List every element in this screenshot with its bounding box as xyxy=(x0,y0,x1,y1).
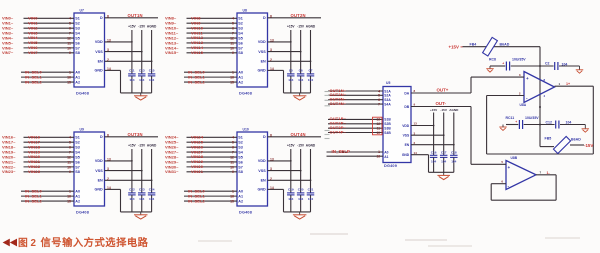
capacitor RC11 10U/35V xyxy=(506,116,540,129)
svg-text:2: 2 xyxy=(270,58,272,62)
power rail +15V xyxy=(128,143,136,193)
power rail AGND xyxy=(306,24,316,74)
svg-text:EN: EN xyxy=(405,143,410,147)
svg-text:1: 1 xyxy=(559,82,561,86)
svg-text:A2: A2 xyxy=(75,80,80,84)
power rail AGND xyxy=(449,108,459,155)
svg-text:1+: 1+ xyxy=(566,82,570,86)
wire top bypass line xyxy=(490,65,580,67)
svg-text:10: 10 xyxy=(67,46,71,50)
svg-text:13: 13 xyxy=(270,38,274,42)
svg-text:EN: EN xyxy=(261,60,266,64)
svg-text:11: 11 xyxy=(67,160,71,164)
svg-text:+15V: +15V xyxy=(128,143,136,147)
svg-text:S6: S6 xyxy=(238,160,243,164)
capacitor C11 xyxy=(128,68,136,93)
wire VDD to +15V rail xyxy=(105,160,133,162)
wire VIN19 xyxy=(24,151,75,153)
svg-text:S3: S3 xyxy=(238,27,243,31)
svg-text:DG409: DG409 xyxy=(384,164,397,168)
svg-text:16: 16 xyxy=(230,76,234,80)
svg-text:10: 10 xyxy=(230,46,234,50)
svg-text:AGND: AGND xyxy=(306,24,316,28)
wire GND pin to ground xyxy=(105,70,121,93)
wire VDD to +15V rail xyxy=(268,160,292,162)
svg-text:15: 15 xyxy=(67,199,71,203)
svg-text:A0: A0 xyxy=(238,190,243,194)
wire IN_SEL1 xyxy=(184,195,237,197)
wire IN_SEL1 xyxy=(184,76,237,78)
svg-text:-15V: -15V xyxy=(297,24,305,28)
svg-text:5: 5 xyxy=(69,141,71,145)
svg-text:DA: DA xyxy=(404,91,409,95)
wire VIN12 xyxy=(187,37,238,39)
wire VIN9 xyxy=(187,22,238,24)
svg-text:104: 104 xyxy=(139,78,144,82)
svg-text:1: 1 xyxy=(69,71,71,75)
power rail +15V xyxy=(287,24,295,74)
capacitor C12 104 xyxy=(546,121,572,129)
IC U5 DG409 body xyxy=(383,81,411,168)
svg-text:C16: C16 xyxy=(431,151,437,155)
svg-text:5: 5 xyxy=(501,160,503,164)
svg-text:16: 16 xyxy=(230,195,234,199)
svg-text:C21: C21 xyxy=(308,187,314,191)
wire VIN20 xyxy=(24,156,75,158)
svg-text:2: 2 xyxy=(519,91,521,95)
svg-text:A0: A0 xyxy=(75,71,80,75)
analog ground AGND xyxy=(582,125,590,133)
ferrite bead FB4 xyxy=(470,37,510,56)
svg-text:9: 9 xyxy=(69,170,71,174)
svg-text:4: 4 xyxy=(232,136,234,140)
wire OUT2N~ xyxy=(328,94,383,96)
svg-text:104: 104 xyxy=(441,160,446,164)
svg-text:A1: A1 xyxy=(238,195,243,199)
wire U8A feedback right edge xyxy=(592,86,594,154)
svg-text:A1: A1 xyxy=(75,76,80,80)
wire VIN0 xyxy=(24,17,75,19)
svg-text:11: 11 xyxy=(230,160,234,164)
op-amp U8B xyxy=(506,156,536,190)
wire VIN1 xyxy=(24,22,75,24)
svg-text:S8: S8 xyxy=(75,51,80,55)
svg-text:+: + xyxy=(515,120,517,124)
cap group bottom wire xyxy=(284,92,311,94)
svg-text:EN: EN xyxy=(98,60,103,64)
wire VDD to +15V rail xyxy=(411,125,435,127)
wire IN_SEL2 xyxy=(21,200,74,202)
svg-text:FB4: FB4 xyxy=(470,42,477,46)
svg-text:8: 8 xyxy=(544,78,546,82)
svg-text:U8A: U8A xyxy=(520,103,527,107)
svg-text:IN_SEL2: IN_SEL2 xyxy=(188,198,206,203)
svg-text:A2: A2 xyxy=(238,199,243,203)
power rail -15V xyxy=(440,108,447,155)
svg-text:13: 13 xyxy=(107,38,111,42)
wire VIN17 xyxy=(24,141,75,143)
svg-text:VDD: VDD xyxy=(258,159,266,163)
wire DA output OUT+ xyxy=(411,92,471,94)
svg-text:S8: S8 xyxy=(75,170,80,174)
net label +15V xyxy=(449,44,463,49)
ground symbol xyxy=(134,93,148,100)
svg-text:10: 10 xyxy=(376,131,380,135)
wire GND pin to ground xyxy=(105,189,121,212)
ground symbol xyxy=(293,212,307,219)
svg-text:U5: U5 xyxy=(386,81,390,85)
wire U8B feedback bottom edge xyxy=(491,199,556,201)
svg-text:S4A: S4A xyxy=(384,102,391,106)
svg-text:S5: S5 xyxy=(75,36,80,40)
wire VIN26 xyxy=(187,146,238,148)
svg-text:信号输入方式选择电路: 信号输入方式选择电路 xyxy=(41,236,149,249)
faint mark xyxy=(325,92,331,106)
capacitor RC8 10U/35V xyxy=(489,57,526,70)
analog ground AGND xyxy=(499,127,507,130)
svg-text:14: 14 xyxy=(270,67,274,71)
power rail +15V xyxy=(430,108,438,155)
svg-text:B6AD: B6AD xyxy=(500,42,510,46)
ground symbol xyxy=(437,172,450,179)
svg-text:S4B: S4B xyxy=(384,131,391,135)
svg-text:D: D xyxy=(263,135,266,139)
power rail -15V xyxy=(138,143,146,193)
wire VIN18 xyxy=(24,146,75,148)
svg-text:GND: GND xyxy=(257,69,266,73)
wire U8A output xyxy=(555,85,594,87)
svg-text:IN_SELP: IN_SELP xyxy=(332,149,351,154)
wire GND pin to ground xyxy=(411,155,429,173)
svg-text:AGND: AGND xyxy=(306,143,316,147)
svg-text:8: 8 xyxy=(107,133,109,137)
ground symbol xyxy=(134,212,148,219)
svg-text:13: 13 xyxy=(107,157,111,161)
wire V+ supply vertical xyxy=(539,47,541,126)
ground symbol xyxy=(293,93,307,100)
svg-text:S2: S2 xyxy=(238,141,243,145)
svg-text:+15V: +15V xyxy=(287,24,295,28)
svg-text:C2: C2 xyxy=(545,61,550,65)
svg-text:S5: S5 xyxy=(238,36,243,40)
power rail -15V xyxy=(297,24,305,74)
wire IN_SEL2 xyxy=(21,81,74,83)
svg-text:VIN7~: VIN7~ xyxy=(2,50,14,55)
wire IN_SEL0 xyxy=(184,190,237,192)
svg-text:6: 6 xyxy=(501,180,503,184)
wire EN to AGND rail xyxy=(411,144,455,146)
svg-text:C18: C18 xyxy=(451,151,457,155)
svg-text:OUT2N: OUT2N xyxy=(291,13,306,18)
power rail AGND xyxy=(147,24,157,74)
svg-text:3: 3 xyxy=(107,167,109,171)
svg-text:5: 5 xyxy=(232,22,234,26)
wire bead FB5 to -15V xyxy=(570,144,584,146)
svg-text:A1: A1 xyxy=(75,195,80,199)
svg-text:C20: C20 xyxy=(298,187,304,191)
analog ground AGND xyxy=(576,66,584,73)
IC U7 DG408 body xyxy=(74,9,105,96)
svg-text:OUT4N~: OUT4N~ xyxy=(330,101,347,106)
svg-text:10U/35V: 10U/35V xyxy=(525,116,539,120)
wire VIN27 xyxy=(187,151,238,153)
svg-text:14: 14 xyxy=(107,186,111,190)
wire IN_SEL0 xyxy=(21,190,74,192)
svg-text:10U/35V: 10U/35V xyxy=(512,57,526,61)
wire VIN11 xyxy=(187,32,238,34)
wire D output OUT4N xyxy=(268,136,322,138)
svg-text:A2: A2 xyxy=(75,199,80,203)
wire OUT2P~ xyxy=(328,123,383,125)
wire U8B feedback left edge xyxy=(490,184,492,201)
svg-text:4: 4 xyxy=(69,17,71,21)
wire VIN13 xyxy=(187,42,238,44)
op-amp U8A xyxy=(520,72,555,107)
svg-text:DG408: DG408 xyxy=(239,211,252,215)
power rail +15V xyxy=(287,143,295,193)
capacitor C24 xyxy=(148,187,156,212)
wire D output OUT1N xyxy=(105,17,159,19)
svg-text:104: 104 xyxy=(451,160,456,164)
svg-text:U10: U10 xyxy=(243,128,249,132)
svg-text:3: 3 xyxy=(270,48,272,52)
svg-text:S6: S6 xyxy=(238,41,243,45)
IC U8 DG408 body xyxy=(237,9,268,96)
svg-text:1-: 1- xyxy=(547,171,551,175)
cap group bottom wire xyxy=(284,211,311,213)
svg-text:+15V: +15V xyxy=(449,44,459,49)
svg-text:S7: S7 xyxy=(238,46,243,50)
capacitor C20 xyxy=(297,187,305,212)
svg-text:VDD: VDD xyxy=(95,40,103,44)
svg-text:3: 3 xyxy=(270,167,272,171)
svg-text:12: 12 xyxy=(67,155,71,159)
svg-text:104: 104 xyxy=(566,121,572,125)
svg-text:-15V: -15V xyxy=(440,108,447,112)
svg-text:C15: C15 xyxy=(149,68,155,72)
svg-text:GND: GND xyxy=(257,188,266,192)
svg-text:14: 14 xyxy=(270,186,274,190)
svg-text:16: 16 xyxy=(67,195,71,199)
svg-text:104: 104 xyxy=(308,197,313,201)
svg-text:104: 104 xyxy=(149,197,154,201)
capacitor C5 xyxy=(287,68,295,93)
svg-text:D: D xyxy=(100,16,103,20)
svg-text:S6: S6 xyxy=(75,160,80,164)
wire VIN29 xyxy=(187,161,238,163)
svg-text:A0: A0 xyxy=(75,190,80,194)
wire OUT3P~ xyxy=(328,127,383,129)
svg-text:VIN23~: VIN23~ xyxy=(2,169,16,174)
svg-text:7: 7 xyxy=(540,170,542,174)
ferrite bead FB5 xyxy=(545,136,582,153)
wire OUT1N~ xyxy=(328,90,383,92)
svg-text:VIN23: VIN23 xyxy=(28,169,41,174)
svg-text:OUT1N: OUT1N xyxy=(128,13,143,18)
svg-text:8: 8 xyxy=(270,133,272,137)
svg-text:EN: EN xyxy=(261,179,266,183)
svg-text:8: 8 xyxy=(107,14,109,18)
svg-text:104: 104 xyxy=(298,78,303,82)
svg-text:S2: S2 xyxy=(75,22,80,26)
wire OUT4P~ xyxy=(328,132,383,134)
svg-text:104: 104 xyxy=(288,78,293,82)
svg-text:OUT+: OUT+ xyxy=(437,88,449,93)
wire VIN2 xyxy=(24,27,75,29)
svg-text:FB5: FB5 xyxy=(545,136,552,140)
wire U8A non-inverting input xyxy=(471,76,524,78)
svg-text:6: 6 xyxy=(232,27,234,31)
svg-text:C7: C7 xyxy=(309,68,313,72)
wire D output OUT3N xyxy=(105,136,159,138)
wire VIN10 xyxy=(187,27,238,29)
svg-text:104: 104 xyxy=(562,62,568,66)
wire IN_SEL1 xyxy=(21,195,74,197)
svg-text:RC8: RC8 xyxy=(489,57,496,61)
svg-text:-15V: -15V xyxy=(584,143,593,148)
svg-text:VSS: VSS xyxy=(258,169,266,173)
capacitor C21 xyxy=(307,187,315,212)
IC U10 DG408 body xyxy=(237,128,268,215)
wire +15V to ferrite bead FB4 xyxy=(463,46,541,48)
wire U8B output xyxy=(536,174,556,176)
svg-text:VDD: VDD xyxy=(402,124,410,128)
svg-text:14: 14 xyxy=(414,151,418,155)
svg-text:4: 4 xyxy=(544,94,546,98)
wire VIN5 xyxy=(24,42,75,44)
wire VDD to +15V rail xyxy=(105,41,133,43)
svg-text:+15V: +15V xyxy=(128,24,136,28)
wire A1 xyxy=(327,155,384,157)
wire VIN31 xyxy=(187,171,238,173)
wire U8B inverting input xyxy=(491,183,506,185)
wire VIN3 xyxy=(24,32,75,34)
svg-text:C23: C23 xyxy=(139,187,145,191)
wire GND pin to ground xyxy=(268,70,284,93)
svg-text:13: 13 xyxy=(270,157,274,161)
svg-text:C12: C12 xyxy=(546,121,552,125)
cap group bottom wire xyxy=(121,211,152,213)
svg-text:4: 4 xyxy=(232,17,234,21)
wire OUT4N~ xyxy=(328,103,383,105)
svg-text:S1: S1 xyxy=(75,136,80,140)
wire U8B non-inverting input xyxy=(471,163,506,165)
svg-text:U8: U8 xyxy=(243,9,247,13)
svg-text:7: 7 xyxy=(69,150,71,154)
svg-text:7: 7 xyxy=(69,31,71,35)
svg-text:C11: C11 xyxy=(129,68,135,72)
svg-text:S7: S7 xyxy=(238,165,243,169)
svg-text:1: 1 xyxy=(232,71,234,75)
wire IN_SEL1 xyxy=(21,76,74,78)
wire VIN30 xyxy=(187,166,238,168)
svg-text:8: 8 xyxy=(270,14,272,18)
capacitor C15 xyxy=(148,68,156,93)
wire V- to ferrite bead FB5 xyxy=(540,125,554,147)
svg-text:DB: DB xyxy=(404,105,409,109)
svg-text:C19: C19 xyxy=(288,187,294,191)
wire OUT1P~ xyxy=(328,118,383,120)
svg-text:VSS: VSS xyxy=(95,169,103,173)
wire EN to AGND rail xyxy=(268,60,312,62)
power rail -15V xyxy=(297,143,305,193)
svg-text:S8: S8 xyxy=(238,51,243,55)
wire VIN28 xyxy=(187,156,238,158)
capacitor C13 xyxy=(138,68,146,93)
capacitor C16 xyxy=(430,151,438,173)
net label -15V xyxy=(584,143,593,148)
svg-text:4: 4 xyxy=(69,136,71,140)
svg-text:D: D xyxy=(100,135,103,139)
wire VIN4 xyxy=(24,37,75,39)
wire OUT- dropper to op-amp U8B xyxy=(470,107,472,165)
svg-text:11: 11 xyxy=(230,41,234,45)
svg-text:VSS: VSS xyxy=(403,134,410,138)
power rail AGND xyxy=(306,143,316,193)
wire EN to AGND rail xyxy=(268,179,312,181)
svg-text:AGND: AGND xyxy=(449,108,459,112)
svg-text:U9: U9 xyxy=(80,128,84,132)
svg-text:+15V: +15V xyxy=(287,143,295,147)
wire EN to AGND rail xyxy=(105,60,153,62)
wire VIN7 xyxy=(24,52,75,54)
svg-text:1: 1 xyxy=(69,190,71,194)
svg-text:C17: C17 xyxy=(441,151,447,155)
svg-text:VIN31~: VIN31~ xyxy=(165,169,179,174)
svg-text:GND: GND xyxy=(94,69,103,73)
svg-text:RC11: RC11 xyxy=(506,116,515,120)
svg-text:16: 16 xyxy=(67,76,71,80)
svg-text:104: 104 xyxy=(129,78,134,82)
svg-text:A1: A1 xyxy=(384,155,388,159)
svg-text:+: + xyxy=(526,76,529,81)
capacitor C17 xyxy=(440,151,448,173)
svg-text:15: 15 xyxy=(230,80,234,84)
wire OUT+ riser to op-amp U8A xyxy=(470,77,472,93)
svg-text:15: 15 xyxy=(230,199,234,203)
capacitor C19 xyxy=(287,187,295,212)
svg-text:104: 104 xyxy=(139,197,144,201)
wire bottom bypass line xyxy=(506,124,585,126)
svg-text:7: 7 xyxy=(232,150,234,154)
svg-text:5: 5 xyxy=(232,141,234,145)
svg-text:B6AD: B6AD xyxy=(571,137,581,141)
svg-text:2: 2 xyxy=(270,177,272,181)
svg-text:DG408: DG408 xyxy=(239,92,252,96)
svg-text:9: 9 xyxy=(69,51,71,55)
cap group bottom wire xyxy=(121,92,152,94)
power rail -15V xyxy=(138,24,146,74)
wire EN to AGND rail xyxy=(105,179,153,181)
svg-text:S5: S5 xyxy=(75,155,80,159)
svg-text:IN_SEL2: IN_SEL2 xyxy=(188,79,206,84)
svg-text:9: 9 xyxy=(232,170,234,174)
svg-text:AGND: AGND xyxy=(147,24,157,28)
svg-text:3: 3 xyxy=(519,73,521,77)
wire VIN22 xyxy=(24,166,75,168)
svg-text:S2: S2 xyxy=(75,141,80,145)
svg-text:104: 104 xyxy=(129,197,134,201)
svg-text:DG408: DG408 xyxy=(76,92,89,96)
cap group bottom wire xyxy=(429,171,454,173)
svg-text:OUT-: OUT- xyxy=(436,101,447,106)
svg-text:OUT4N: OUT4N xyxy=(291,132,306,137)
svg-text:3: 3 xyxy=(107,48,109,52)
svg-text:104: 104 xyxy=(308,78,313,82)
wire IN_SEL0 xyxy=(21,71,74,73)
capacitor C18 xyxy=(450,151,458,173)
svg-text:11: 11 xyxy=(67,41,71,45)
